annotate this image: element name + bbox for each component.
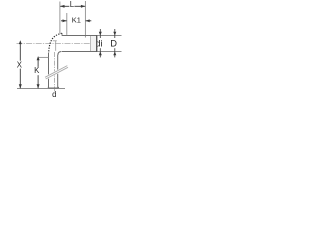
svg-text:L: L (70, 0, 75, 9)
svg-text:X: X (17, 60, 23, 69)
vertical pipe left edge (48, 53, 50, 88)
dimension K line (37, 56, 40, 60)
arrowhead X bottom (19, 84, 22, 88)
dimension K1 outside arrow left (61, 20, 67, 22)
dimension D upper arrow (114, 29, 116, 38)
pipe break symbol white gap (45, 65, 68, 81)
pipe break symbol lower diagonal (46, 67, 68, 79)
arrowhead L left (60, 5, 64, 8)
dimension K extension line at socket depth (39, 56, 49, 58)
svg-text:K1: K1 (72, 15, 81, 24)
svg-text:d: d (52, 90, 56, 99)
horizontal pipe centerline (dash-dot) (17, 43, 97, 45)
pipe break symbol upper diagonal (45, 66, 67, 78)
pipe top edge extension to the right (97, 35, 121, 37)
horizontal pipe top edge (62, 35, 97, 37)
arrowhead L right (81, 5, 85, 8)
internal socket stop line horizontal (53, 40, 57, 42)
vertical pipe centerline (dash-dot) (54, 52, 56, 92)
dimension K1 outside arrow right (86, 20, 92, 22)
internal socket stop line vertical (55, 41, 57, 51)
dimension di lower arrow (99, 48, 101, 57)
svg-text:D: D (110, 38, 117, 48)
press sleeve tint at pipe end (91, 36, 97, 51)
inner corner arc of elbow (58, 52, 62, 56)
horizontal pipe bottom edge (62, 51, 97, 53)
dimension X line (19, 40, 22, 44)
vertical pipe bottom end face (48, 87, 58, 88)
bottom extension line through pipe end (17, 88, 65, 90)
dimension D lower arrow (114, 48, 116, 57)
arrowhead K bottom (37, 84, 40, 88)
pipe end face (96, 35, 98, 52)
dimension K1 extension line left (66, 13, 68, 35)
dimension line L (60, 5, 69, 7)
svg-text:K: K (34, 66, 40, 75)
press sleeve edge line (89, 36, 91, 52)
dimension di upper arrow (99, 29, 101, 38)
dimension L extension line left (59, 2, 61, 34)
shared extension line right for L and K1 (84, 1, 86, 38)
vertical pipe right edge (57, 55, 59, 88)
pipe bottom edge extension to the right (97, 51, 121, 53)
elbow outer bend arc (appears dashed) (49, 33, 62, 53)
elbow body step at bend/pipe joint (61, 33, 63, 36)
